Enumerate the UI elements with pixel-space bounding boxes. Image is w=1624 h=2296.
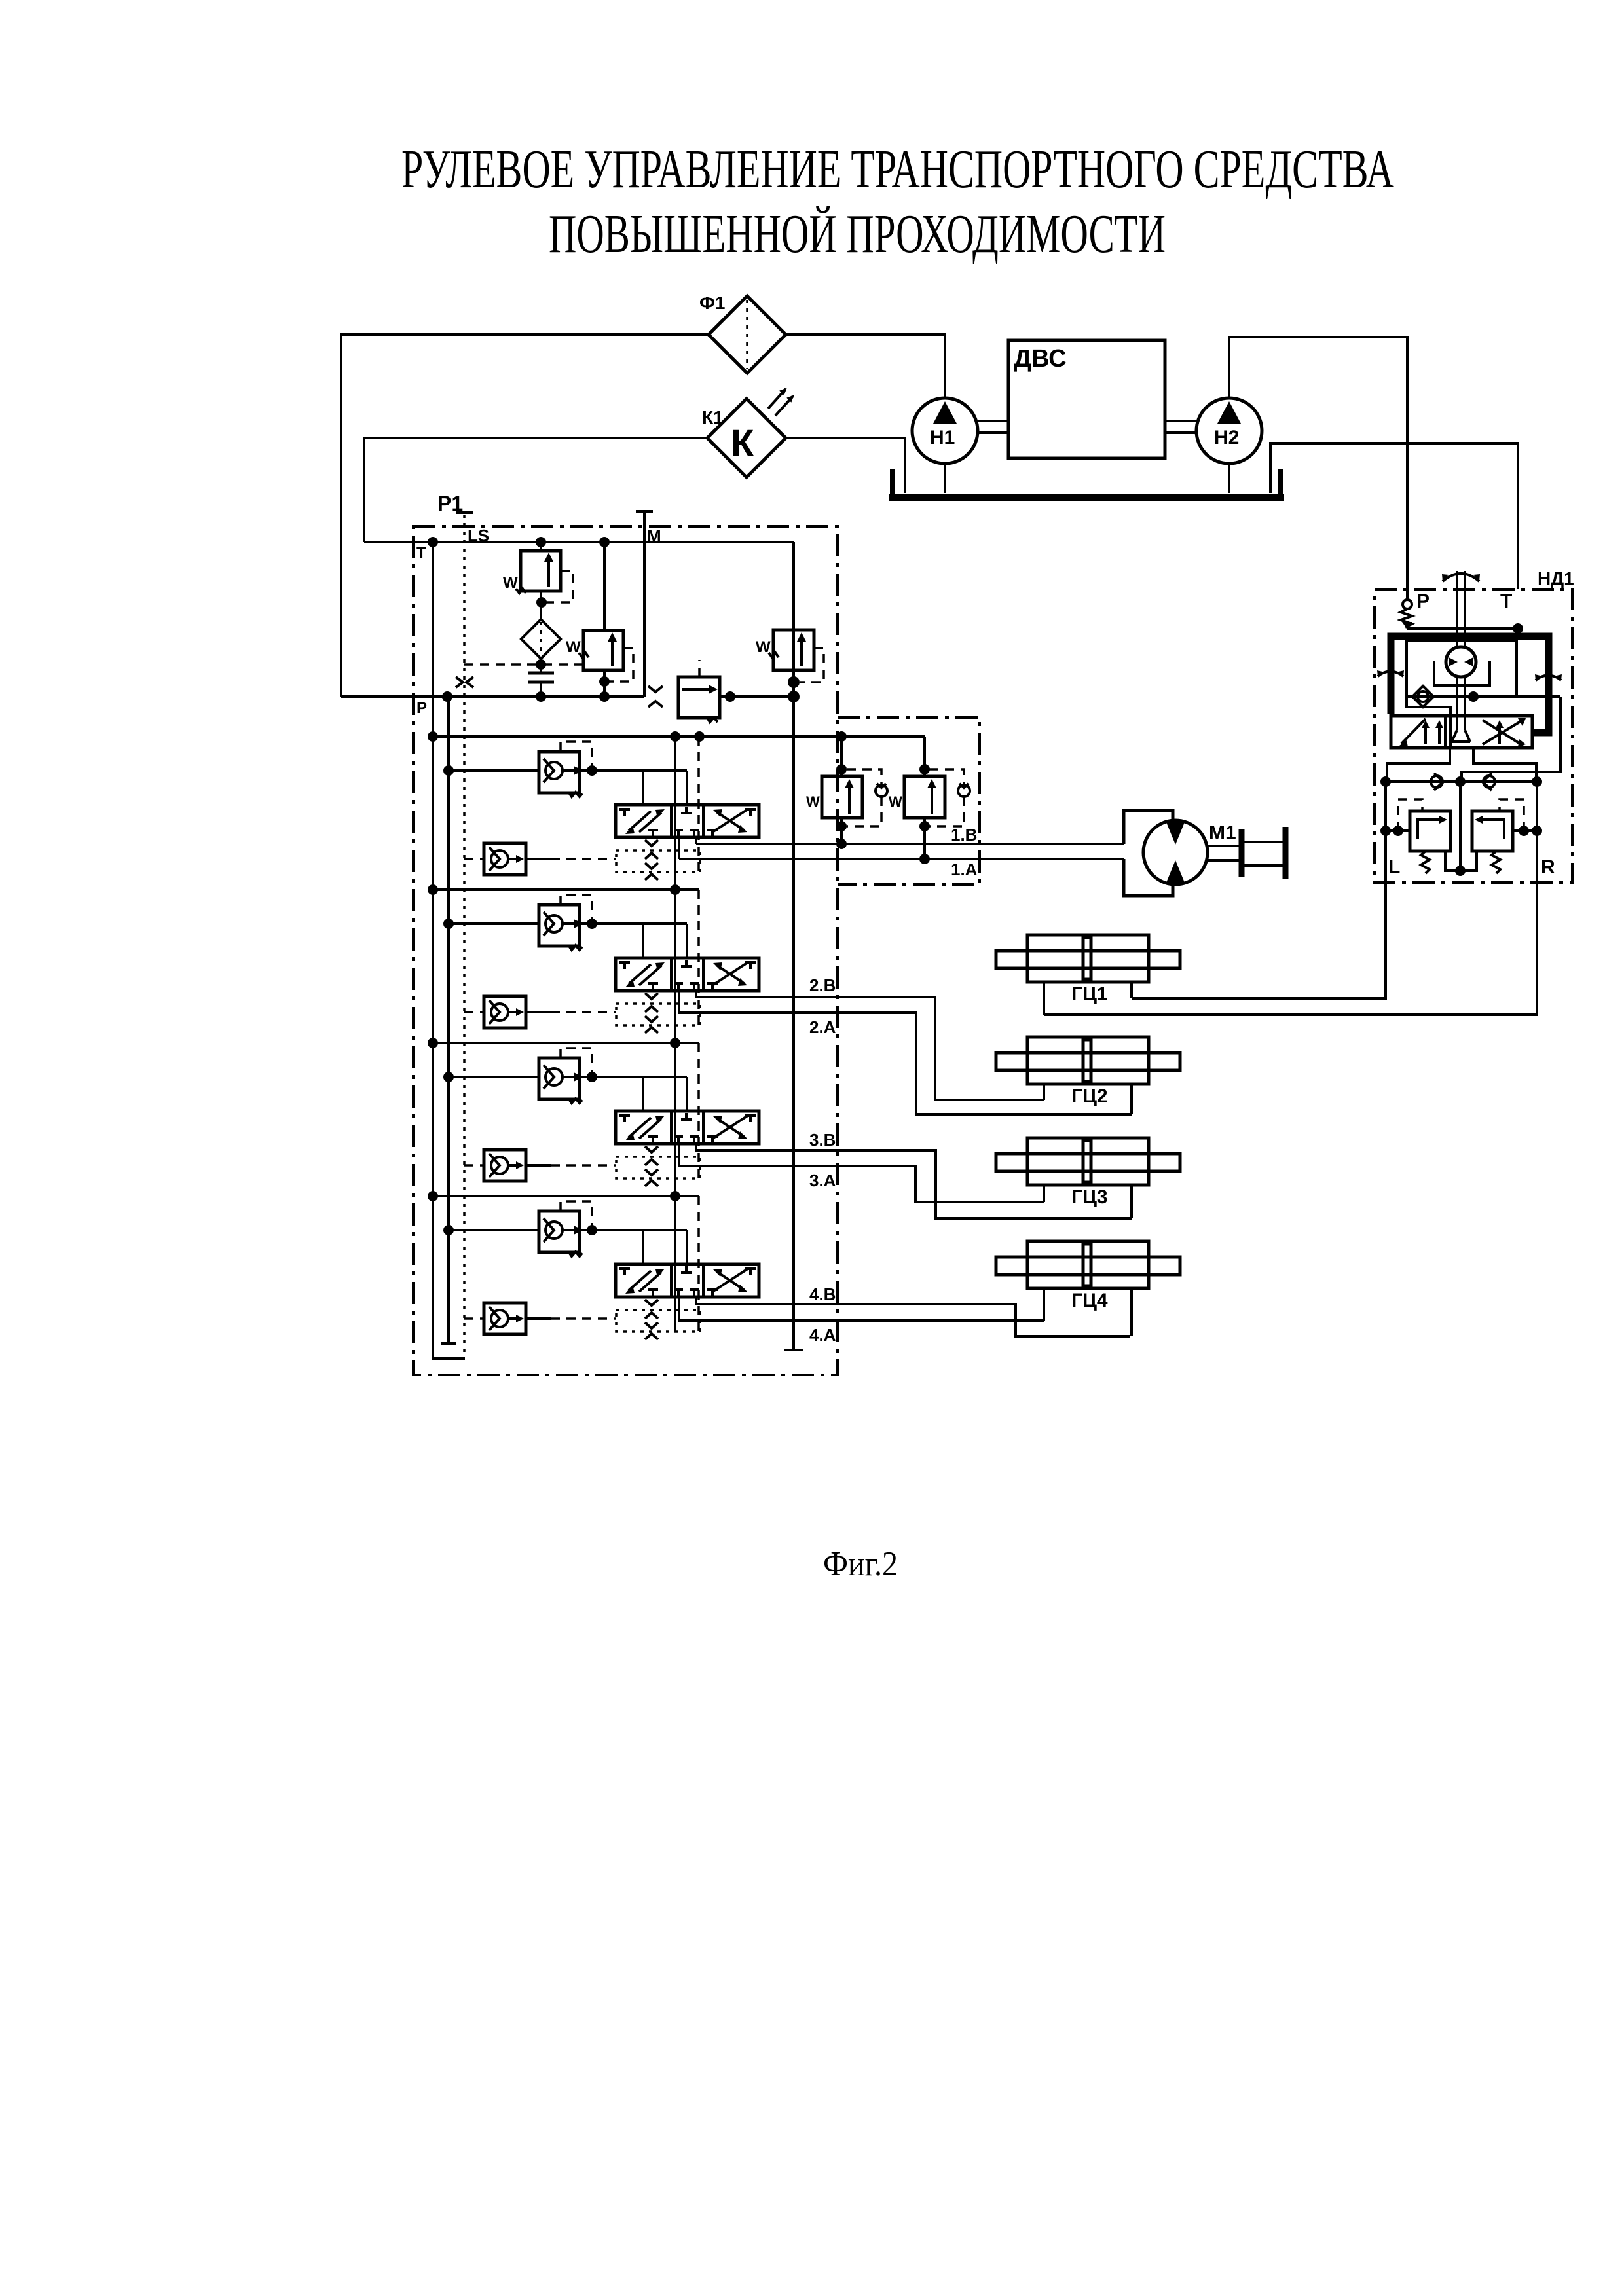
relief valve 2	[566, 542, 633, 697]
valve section row 2	[433, 890, 759, 1033]
wire: pump H2 to НД1 port P	[1229, 337, 1407, 597]
wire 2.A	[679, 991, 1132, 1114]
svg-text:ГЦ1: ГЦ1	[1071, 983, 1108, 1005]
svg-text:3.A: 3.A	[809, 1171, 836, 1190]
cylinder ГЦ4	[996, 1241, 1180, 1288]
cylinder ГЦ2	[996, 1037, 1180, 1084]
left shock relief	[1384, 782, 1387, 883]
wire 4.B	[696, 1297, 1130, 1336]
svg-text:М1: М1	[1209, 822, 1236, 844]
svg-text:P: P	[1416, 591, 1430, 612]
P-T top link	[1407, 627, 1518, 630]
svg-text:Ф1: Ф1	[699, 293, 725, 313]
cylinder ГЦ1	[996, 935, 1180, 982]
left feed step	[1407, 697, 1450, 716]
T down right edge	[1517, 629, 1519, 640]
row branch dots on rails	[428, 731, 438, 742]
svg-text:ПОВЫШЕННОЙ ПРОХОДИМОСТИ: ПОВЫШЕННОЙ ПРОХОДИМОСТИ	[549, 204, 1166, 264]
svg-text:W: W	[889, 793, 902, 810]
center drain	[1459, 782, 1462, 871]
wire: filter loop left (P supply)	[341, 335, 709, 697]
bottom rail with check valves	[1386, 780, 1537, 783]
LS line	[456, 511, 473, 514]
svg-text:ГЦ4: ГЦ4	[1071, 1290, 1108, 1311]
svg-text:R: R	[1541, 856, 1555, 878]
steering valve	[1391, 716, 1532, 748]
metering inner box	[1407, 640, 1517, 697]
cooler К1	[702, 389, 793, 477]
wire: filter Ф1 to pump H1 top	[786, 335, 945, 398]
svg-text:2.A: 2.A	[809, 1017, 836, 1037]
wire 1.A	[679, 858, 1124, 860]
svg-text:Н1: Н1	[930, 427, 955, 448]
svg-text:ДВС: ДВС	[1014, 345, 1067, 373]
svg-text:3.B: 3.B	[809, 1130, 836, 1150]
T rail right	[784, 542, 803, 1350]
svg-text:ГЦ3: ГЦ3	[1071, 1186, 1108, 1208]
relief valve on T rail	[756, 630, 824, 682]
T line	[364, 541, 794, 543]
svg-text:ГЦ2: ГЦ2	[1071, 1085, 1108, 1107]
wire: tank to НД1 port T	[1270, 443, 1518, 589]
svg-text:1.B: 1.B	[951, 825, 977, 845]
row1 T branch extension to shock valves	[699, 735, 925, 738]
M test point chevrons	[648, 686, 663, 707]
svg-text:РУЛЕВОЕ УПРАВЛЕНИЕ ТРАНСПОРТНО: РУЛЕВОЕ УПРАВЛЕНИЕ ТРАНСПОРТНОГО СРЕДСТВ…	[401, 139, 1394, 200]
check valve on metering line	[1407, 695, 1560, 698]
LS orifice	[456, 677, 473, 687]
pilot filter diamond	[521, 619, 561, 673]
svg-text:L: L	[1388, 856, 1400, 878]
engine ДВС	[978, 340, 1196, 458]
wire ГЦ1 right port to L	[1132, 883, 1386, 998]
svg-text:T: T	[1500, 591, 1512, 612]
left shock valve	[840, 737, 843, 776]
metering return loop to bottom rail	[1462, 697, 1560, 782]
svg-text:1.A: 1.A	[951, 860, 978, 879]
svg-text:Н2: Н2	[1214, 427, 1239, 448]
steering column	[1457, 571, 1465, 648]
wire 2.B	[696, 991, 1044, 1100]
feedback thick frame	[1391, 636, 1549, 733]
valve section row 3	[433, 1043, 759, 1186]
unloading valve (upper relief)	[503, 542, 573, 619]
M line	[636, 511, 653, 697]
pump H1	[912, 398, 978, 493]
svg-text:T: T	[416, 544, 426, 562]
right shock relief	[1536, 782, 1538, 883]
P vertical rail	[441, 697, 456, 1343]
filter Ф1	[699, 293, 786, 373]
svg-text:4.B: 4.B	[809, 1285, 836, 1304]
wire 3.B	[696, 1144, 1132, 1218]
T vertical rail	[433, 542, 465, 1358]
svg-text:К1: К1	[702, 407, 724, 428]
svg-text:2.B: 2.B	[809, 975, 836, 995]
svg-text:НД1: НД1	[1538, 568, 1574, 589]
P1 border	[413, 526, 838, 1375]
accumulator plates	[528, 673, 554, 697]
T-port rail	[674, 737, 676, 1332]
svg-text:P: P	[416, 699, 427, 717]
valve to bottom rails	[1387, 748, 1450, 782]
sub box border	[838, 718, 980, 884]
valve section row 1	[433, 737, 759, 880]
wire 4.A	[679, 1297, 1044, 1321]
valve section row 4	[433, 1196, 759, 1339]
svg-text:4.A: 4.A	[809, 1325, 836, 1345]
LS pilot dashed line	[464, 663, 583, 666]
wire: cooler K1 to tank	[786, 438, 905, 493]
side rotation arrows	[1378, 672, 1403, 677]
НД1 border	[1375, 589, 1572, 883]
tank	[889, 469, 1284, 498]
P inlet check with spring	[1406, 597, 1409, 600]
svg-text:Фиг.2: Фиг.2	[823, 1545, 898, 1583]
bypass valve (reducing)	[678, 660, 800, 722]
wire 1.B	[696, 843, 1124, 845]
pump H2	[1196, 398, 1262, 493]
wire 3.A	[679, 1144, 1044, 1202]
P line	[341, 695, 644, 698]
svg-text:W: W	[806, 793, 820, 810]
right shock valve	[923, 737, 926, 776]
cylinder ГЦ3	[996, 1138, 1180, 1185]
gerotor	[1446, 647, 1476, 677]
svg-text:К: К	[731, 422, 754, 465]
wire: cooler loop (T return)	[364, 438, 707, 542]
wire ГЦ1 left port to R	[1044, 883, 1537, 1015]
